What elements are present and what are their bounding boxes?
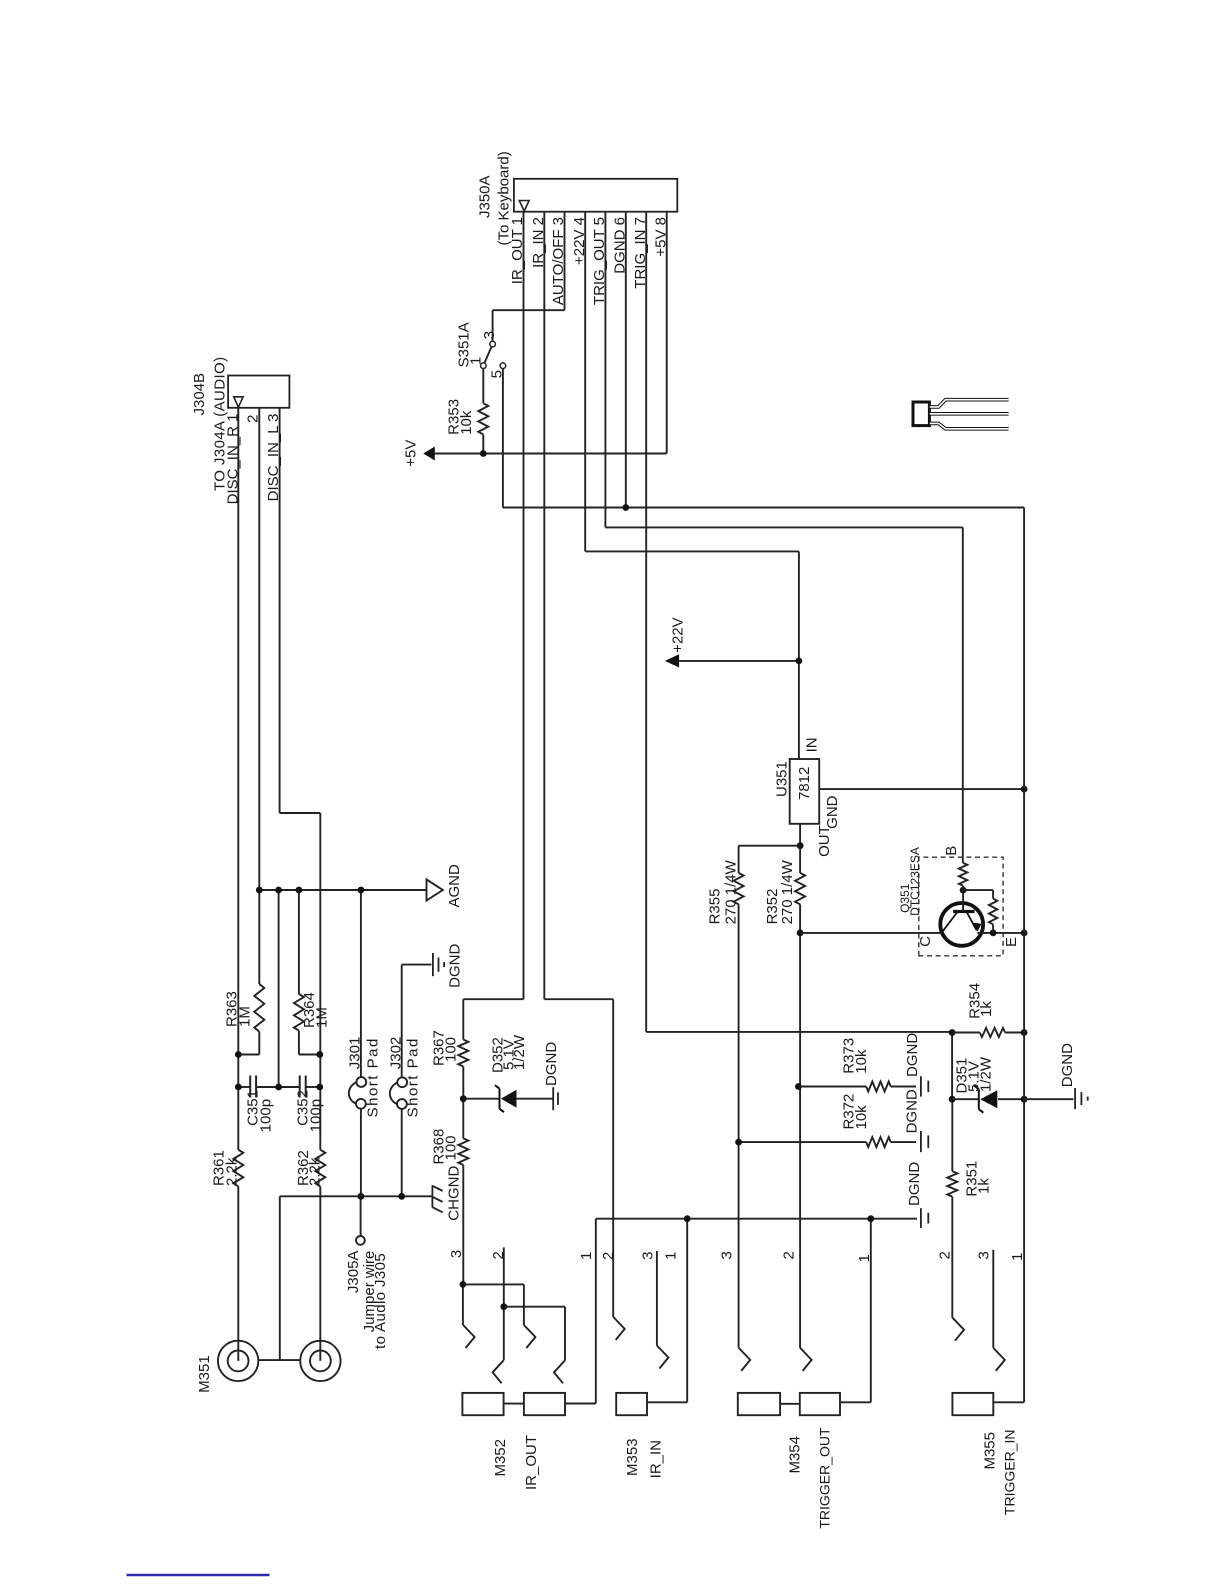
svg-text:2.2k: 2.2k xyxy=(307,1157,324,1186)
wire TRIG_OUT drop xyxy=(605,526,962,528)
contact M355 pin2 xyxy=(953,1318,965,1341)
wire M352 pin3 contact seg xyxy=(462,1284,464,1325)
node +5V R353 xyxy=(480,450,487,457)
wire M352 pin1 to box xyxy=(565,1403,596,1405)
wire R372 top xyxy=(738,1141,867,1143)
resistor R367 xyxy=(458,1040,468,1067)
svg-text:1: 1 xyxy=(663,1252,680,1260)
diode D352 zener xyxy=(499,1089,501,1109)
wire R372 bottom xyxy=(891,1141,916,1143)
wire +22V drop xyxy=(585,550,799,552)
node TRIG_IN R354 xyxy=(949,1029,956,1036)
transistor Q351 circle xyxy=(940,903,983,946)
node U351 OUT xyxy=(797,842,804,849)
svg-text:+5V 8: +5V 8 xyxy=(652,217,669,257)
svg-text:AUTO/OFF 3: AUTO/OFF 3 xyxy=(550,217,567,305)
contact M352 pin2 mate xyxy=(554,1360,565,1383)
wire TRIG_IN pin7 xyxy=(645,212,647,1032)
wire D352 to R367 xyxy=(462,1067,464,1099)
node D352 junction xyxy=(460,1095,467,1102)
power +5V arrow xyxy=(423,447,435,461)
wire J301 right xyxy=(360,890,362,1077)
wire R355 to corner xyxy=(738,846,740,873)
svg-text:10k: 10k xyxy=(458,410,475,435)
wire AGND stub caps xyxy=(278,890,280,1087)
wire CHGND vertical xyxy=(280,1195,433,1197)
svg-text:100p: 100p xyxy=(258,1099,275,1132)
wire J305A stub xyxy=(360,1196,362,1236)
wire M352 pin2 xyxy=(503,1247,505,1360)
svg-text:J304B: J304B xyxy=(191,373,208,416)
node DGND pin6 xyxy=(622,504,629,511)
node R372 junction xyxy=(735,1139,742,1146)
wire +22V stub xyxy=(679,660,799,662)
wire DGND riser xyxy=(503,507,1024,509)
resistor R363 xyxy=(254,984,264,1032)
svg-text:TRIG_OUT 5: TRIG_OUT 5 xyxy=(591,217,608,305)
svg-text:2.2k: 2.2k xyxy=(223,1157,240,1186)
power +22V arrow xyxy=(665,654,679,667)
jack M355 body box xyxy=(952,1393,993,1415)
wire DISC_IN_L mid xyxy=(319,813,321,1150)
wire M353 pin1 xyxy=(686,1219,688,1403)
jumper J302 Short Pad xyxy=(397,1077,407,1087)
ground DGND J302 xyxy=(432,953,434,976)
svg-text:1/2W: 1/2W xyxy=(978,1056,995,1092)
wire R368 to D352 xyxy=(462,1099,464,1139)
ground DGND R373 xyxy=(920,1076,922,1096)
svg-text:3: 3 xyxy=(639,1252,656,1260)
wire M355 pin2 row xyxy=(951,1197,953,1318)
wire M355 pin1 to box xyxy=(993,1401,1024,1403)
wire AUTO/OFF riser xyxy=(493,309,565,311)
wire R353 to S351A pin1 xyxy=(482,369,484,404)
switch S351A contacts xyxy=(481,363,487,369)
wire Q351 internal link xyxy=(963,889,993,891)
wire C352 bottom xyxy=(306,1086,320,1088)
wire D351 dgnd stub xyxy=(1024,1098,1073,1100)
contact M354 pin3 xyxy=(739,1348,751,1371)
svg-text:OUT: OUT xyxy=(816,825,833,857)
svg-text:2: 2 xyxy=(600,1252,617,1260)
svg-text:E: E xyxy=(1003,937,1020,947)
wire R354 top xyxy=(952,1032,980,1034)
transistor Q351 emitter lead xyxy=(966,912,976,931)
wire R373 bottom xyxy=(891,1086,916,1088)
svg-text:IN: IN xyxy=(803,737,820,752)
connector J350A box xyxy=(514,179,677,212)
resistor Q351 base R xyxy=(959,863,967,886)
wire DGND pin6 xyxy=(625,212,627,508)
node AGND pin2 xyxy=(256,887,263,894)
svg-text:J305A: J305A xyxy=(345,1251,362,1294)
node Q351 base junction xyxy=(960,887,967,894)
wire R353 to +5V xyxy=(482,434,484,453)
node CHGND J301 xyxy=(358,1193,365,1200)
contact M355 pin3 xyxy=(993,1348,1005,1371)
wire IR_OUT pin1 xyxy=(523,212,525,1000)
wire S351A pin5 xyxy=(502,369,504,508)
node M354 pin1 rail xyxy=(867,1215,874,1222)
wire M354 pin3 row xyxy=(738,904,740,1348)
svg-text:100: 100 xyxy=(442,1037,459,1062)
ground DGND D351 xyxy=(1074,1088,1076,1109)
capacitor C351 xyxy=(249,1076,251,1098)
svg-text:GND: GND xyxy=(824,795,841,829)
svg-text:IR_IN: IR_IN xyxy=(648,1440,665,1478)
ground CHGND symbol xyxy=(431,1185,433,1207)
wire M353 pin2 xyxy=(612,999,614,1317)
resistor R351 xyxy=(947,1171,957,1196)
svg-text:B: B xyxy=(943,846,960,856)
wire M353 pin1 to box xyxy=(647,1401,687,1403)
wire S351A pin3 xyxy=(492,310,494,341)
jumper J305A pad circle xyxy=(356,1236,365,1245)
resistor Q351 BE R xyxy=(989,899,997,925)
wire M352 pin3 branch xyxy=(523,1284,525,1325)
wire M352 pin1 xyxy=(595,1219,597,1404)
node R354 rail xyxy=(1021,1029,1028,1036)
svg-text:M354: M354 xyxy=(787,1436,804,1474)
wire DISC_IN_L jog xyxy=(280,812,321,814)
wire M352 pin3 row xyxy=(462,1165,464,1285)
resistor R354 xyxy=(980,1028,1005,1037)
wire R355 corner to OUT xyxy=(739,845,801,847)
node AGND caps xyxy=(275,887,282,894)
svg-text:to Audio J305: to Audio J305 xyxy=(372,1253,389,1349)
jack M351 ring circle xyxy=(300,1341,340,1381)
node R373 junction xyxy=(795,1083,802,1090)
svg-text:J301: J301 xyxy=(347,1037,364,1070)
wire TRIG_OUT to Q351 base xyxy=(962,527,964,863)
svg-text:3: 3 xyxy=(976,1251,993,1259)
diode D351 zener xyxy=(978,1089,980,1109)
ground AGND triangle xyxy=(427,879,443,900)
node AGND R364 xyxy=(296,887,303,894)
wire M351 circles link xyxy=(258,1359,300,1361)
resistor R355 xyxy=(734,873,744,904)
svg-text:TRIGGER_IN: TRIGGER_IN xyxy=(1002,1430,1018,1516)
wire Q351 internal R right xyxy=(992,890,994,899)
svg-text:DISC_IN_L 3: DISC_IN_L 3 xyxy=(265,414,282,502)
node emitter rail xyxy=(1021,930,1028,937)
svg-text:+5V: +5V xyxy=(403,440,420,467)
wire DGND rail xyxy=(1023,508,1025,1403)
node M352 pin2 junction xyxy=(500,1303,507,1310)
svg-text:DGND: DGND xyxy=(446,943,463,987)
svg-text:TRIGGER_OUT: TRIGGER_OUT xyxy=(817,1427,833,1529)
wire R351 to D351 xyxy=(951,1099,953,1171)
svg-text:100p: 100p xyxy=(308,1099,325,1132)
svg-text:IR_OUT 1: IR_OUT 1 xyxy=(509,217,526,284)
wire R352 to OUT xyxy=(799,846,801,873)
transistor Q351 base bar xyxy=(953,910,975,913)
svg-text:1: 1 xyxy=(856,1254,873,1262)
package TO-92 body xyxy=(913,402,929,426)
svg-text:M352: M352 xyxy=(492,1439,509,1477)
svg-text:2: 2 xyxy=(936,1251,953,1259)
svg-text:1/2W: 1/2W xyxy=(511,1034,528,1070)
jack M354 body boxes xyxy=(738,1393,780,1415)
wire jack DGND rail xyxy=(596,1218,917,1220)
svg-text:1k: 1k xyxy=(976,1178,993,1194)
wire M352 pin2 branch drop xyxy=(504,1306,565,1308)
node R364 jog xyxy=(316,1051,323,1058)
jack M352 body boxes xyxy=(462,1393,503,1415)
svg-text:CHGND: CHGND xyxy=(445,1166,462,1221)
node M353 pin1 rail xyxy=(684,1215,691,1222)
wire Q351 base xyxy=(962,886,964,912)
capacitor C352 xyxy=(299,1076,301,1098)
jack M353 body box xyxy=(616,1393,647,1415)
wire IR_OUT drop xyxy=(463,998,523,1000)
ground DGND R372 xyxy=(920,1131,922,1152)
wire M353 pin3 open xyxy=(656,1251,658,1346)
svg-text:M355: M355 xyxy=(982,1432,999,1470)
footer blue line xyxy=(127,1574,270,1576)
jack M351 tip circle xyxy=(218,1341,258,1381)
wire R354 bottom xyxy=(1005,1032,1024,1034)
svg-text:3: 3 xyxy=(719,1251,736,1259)
svg-text:C: C xyxy=(917,936,934,947)
svg-text:AGND: AGND xyxy=(446,864,463,908)
wire J301 left xyxy=(360,1109,362,1197)
svg-text:1M: 1M xyxy=(314,1007,331,1028)
resistor R353 xyxy=(478,403,488,434)
svg-text:7812: 7812 xyxy=(796,767,813,800)
svg-text:270 1/4W: 270 1/4W xyxy=(723,859,740,924)
node U351 GND rail xyxy=(1021,786,1028,793)
wire Q351 internal R left xyxy=(992,924,994,933)
wire D351 to R354 xyxy=(951,1033,953,1100)
transistor Q351 collector lead xyxy=(942,912,958,933)
svg-text:DGND: DGND xyxy=(904,1089,921,1133)
svg-text:1: 1 xyxy=(468,357,485,365)
wire DISC_IN_L upper xyxy=(279,408,281,813)
node D351 rail xyxy=(1021,1096,1028,1103)
node Q351 emitter junction xyxy=(990,930,997,937)
wire U351 IN xyxy=(798,551,800,759)
wire M354 pin1 xyxy=(870,1219,872,1403)
contact M353 pin2 xyxy=(613,1317,625,1340)
resistor R361 xyxy=(233,1150,243,1187)
wire R364 jog xyxy=(298,1031,300,1055)
svg-text:J302: J302 xyxy=(388,1037,405,1070)
wire cap chain xyxy=(238,1086,250,1088)
connector J304B box xyxy=(228,376,289,408)
connector J350A pin1 marker xyxy=(519,201,529,212)
svg-text:DGND: DGND xyxy=(1059,1043,1076,1087)
node AGND J301 xyxy=(358,887,365,894)
package TO-92 leads xyxy=(930,423,1009,428)
svg-text:R355: R355 xyxy=(707,889,724,925)
wire R363 jog xyxy=(258,1032,260,1055)
svg-text:100: 100 xyxy=(442,1135,459,1160)
wire DISC_IN_R left xyxy=(237,1186,239,1361)
svg-text:1: 1 xyxy=(578,1252,595,1260)
wire DISC_IN_L left xyxy=(319,1186,321,1361)
switch S351A lever xyxy=(484,347,491,363)
svg-text:5: 5 xyxy=(489,370,506,378)
svg-text:TRIG_IN 7: TRIG_IN 7 xyxy=(632,217,649,289)
wire +5V rail xyxy=(434,453,666,455)
wire Q351 emitter xyxy=(977,932,1024,934)
wire U351 OUT xyxy=(799,824,801,846)
svg-text:270 1/4W: 270 1/4W xyxy=(779,859,796,924)
contact M354 pin2 xyxy=(800,1348,812,1371)
wire D352 bottom xyxy=(517,1098,553,1100)
node C352 bottom xyxy=(316,1084,323,1091)
svg-text:+22V 4: +22V 4 xyxy=(571,217,588,265)
wire M352 pin2 branch xyxy=(564,1307,566,1361)
wire +22V pin4 xyxy=(584,212,586,552)
wire J302 dgnd stub xyxy=(402,964,432,966)
wire DISC_IN_R right xyxy=(237,408,239,1150)
wire C352 top xyxy=(279,1086,300,1088)
wire IR_IN drop xyxy=(544,998,613,1000)
wire R363 jog drop xyxy=(238,1054,259,1056)
resistor R352 xyxy=(795,873,805,904)
wire R364 to AGND xyxy=(298,890,300,994)
contact M352 pin2 xyxy=(493,1360,504,1383)
node R363 jog xyxy=(235,1051,242,1058)
svg-text:DGND: DGND xyxy=(904,1033,921,1077)
contact M352 pin3 xyxy=(463,1325,475,1348)
contact M353 pin3 xyxy=(657,1346,669,1369)
transistor Q351 dashed box xyxy=(919,857,1003,956)
svg-text:DGND: DGND xyxy=(906,1162,923,1206)
node C351 top xyxy=(235,1084,242,1091)
wire D352 top xyxy=(463,1098,499,1100)
svg-text:IR_IN 2: IR_IN 2 xyxy=(530,217,547,268)
wire R367 to corner xyxy=(462,999,464,1039)
regulator U351 box xyxy=(790,759,820,824)
resistor R372 xyxy=(866,1137,891,1147)
wire M355 pin3 open xyxy=(992,1250,994,1348)
wire C351 bottom xyxy=(256,1086,279,1088)
node collector junction xyxy=(797,930,804,937)
svg-text:DGND 6: DGND 6 xyxy=(612,217,629,274)
node caps AGND mid xyxy=(275,1084,282,1091)
wire D351 bottom xyxy=(998,1098,1024,1100)
node CHGND J302 xyxy=(398,1193,405,1200)
wire M354 pin2 row xyxy=(799,904,801,1348)
wire AGND vertical xyxy=(259,889,426,891)
svg-text:10k: 10k xyxy=(853,1105,870,1130)
wire M351 to CHGND xyxy=(279,1196,281,1360)
node D351 top xyxy=(949,1096,956,1103)
resistor R368 xyxy=(458,1138,468,1165)
wire J302 right xyxy=(401,965,403,1078)
svg-text:+22V: +22V xyxy=(670,617,687,652)
svg-text:1M: 1M xyxy=(236,1006,253,1027)
connector J304B pin1 marker xyxy=(234,397,243,407)
wire M352 pin3 branch drop xyxy=(463,1283,524,1285)
node +22V junction xyxy=(796,658,803,665)
resistor R362 xyxy=(315,1150,325,1187)
wire Q351 collector xyxy=(800,932,942,934)
wire U351 GND drop xyxy=(819,788,1024,790)
svg-text:3: 3 xyxy=(448,1250,465,1258)
resistor R373 xyxy=(866,1082,891,1092)
svg-text:M353: M353 xyxy=(624,1438,641,1476)
contact M352 pin3 mate xyxy=(524,1325,536,1348)
svg-text:J350A: J350A xyxy=(476,175,493,218)
svg-text:2: 2 xyxy=(245,415,262,423)
svg-text:Short Pad: Short Pad xyxy=(405,1037,422,1117)
wire IR_IN pin2 xyxy=(543,212,545,1000)
wire TRIG_IN drop xyxy=(646,1031,952,1033)
svg-text:IR_OUT: IR_OUT xyxy=(523,1435,540,1490)
wire +5V pin8 xyxy=(666,212,668,454)
svg-text:DTC123ESA: DTC123ESA xyxy=(908,847,922,916)
svg-text:2: 2 xyxy=(781,1251,798,1259)
svg-text:DISC_IN_R 1: DISC_IN_R 1 xyxy=(224,414,241,505)
wire TRIG_OUT pin5 xyxy=(604,212,606,528)
wire AUTO/OFF pin3 xyxy=(564,212,566,311)
svg-text:Short Pad: Short Pad xyxy=(364,1037,381,1117)
resistor R364 xyxy=(294,994,304,1031)
wire R364 jog drop xyxy=(299,1054,320,1056)
svg-text:DGND: DGND xyxy=(543,1042,560,1086)
svg-text:2: 2 xyxy=(490,1251,507,1259)
node M352 pin3 junction xyxy=(460,1281,467,1288)
svg-text:U351: U351 xyxy=(773,761,790,797)
wire D351 top stub xyxy=(952,1098,979,1100)
ground DGND jack rail xyxy=(920,1208,922,1228)
svg-text:1k: 1k xyxy=(978,1001,995,1017)
wire R373 top xyxy=(798,1086,866,1088)
wire J302 left xyxy=(401,1109,403,1196)
wire J304B pin2 xyxy=(258,408,260,984)
svg-text:3: 3 xyxy=(481,331,498,339)
wire M354 pin1 to box xyxy=(840,1401,871,1403)
svg-text:1: 1 xyxy=(1009,1253,1026,1261)
svg-text:10k: 10k xyxy=(853,1049,870,1074)
ground DGND D352 xyxy=(552,1087,554,1110)
jumper J301 Short Pad xyxy=(356,1077,366,1087)
svg-text:M351: M351 xyxy=(196,1355,213,1393)
